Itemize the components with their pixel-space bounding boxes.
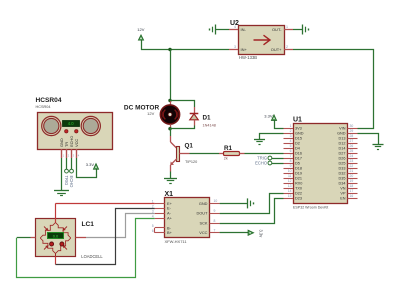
svg-text:HCSR04: HCSR04 (36, 105, 51, 109)
svg-text:D14: D14 (339, 146, 346, 150)
svg-text:D13: D13 (339, 136, 346, 140)
svg-text:SCK: SCK (200, 220, 208, 225)
svg-text:5: 5 (290, 144, 292, 148)
svg-text:ECHO: ECHO (69, 176, 74, 188)
svg-text:LC1: LC1 (82, 221, 95, 228)
svg-text:ESP32 Wroom DevKit: ESP32 Wroom DevKit (293, 206, 328, 210)
svg-text:D21: D21 (295, 176, 302, 180)
svg-text:OUT+: OUT+ (271, 47, 282, 52)
svg-text:8: 8 (290, 159, 292, 163)
svg-text:D35: D35 (339, 176, 346, 180)
svg-text:6: 6 (152, 229, 154, 233)
svg-text:4: 4 (290, 139, 292, 143)
svg-text:3: 3 (152, 209, 154, 213)
svg-text:VIN: VIN (339, 126, 346, 130)
svg-text:Q1: Q1 (185, 143, 194, 150)
svg-text:0.0: 0.0 (53, 234, 59, 239)
svg-text:3.3V: 3.3V (264, 114, 273, 119)
svg-text:TIP120: TIP120 (185, 160, 197, 164)
svg-text:26: 26 (350, 144, 354, 148)
svg-text:ECHO: ECHO (255, 160, 267, 165)
svg-text:VN: VN (340, 186, 346, 190)
svg-text:IN-: IN- (241, 27, 247, 32)
svg-text:VCC: VCC (74, 139, 79, 147)
svg-text:19: 19 (350, 179, 354, 183)
svg-text:9: 9 (290, 164, 292, 168)
svg-text:23: 23 (350, 159, 354, 163)
svg-text:D5: D5 (295, 161, 300, 165)
svg-text:GND: GND (295, 131, 304, 135)
svg-text:27: 27 (350, 139, 354, 143)
svg-text:D15: D15 (295, 136, 302, 140)
svg-text:29: 29 (350, 129, 354, 133)
svg-text:11: 11 (288, 174, 292, 178)
svg-text:TX0: TX0 (295, 186, 302, 190)
svg-text:16: 16 (350, 194, 354, 198)
svg-text:3: 3 (73, 153, 75, 157)
svg-text:EN: EN (340, 196, 346, 200)
svg-text:13: 13 (288, 184, 292, 188)
svg-text:IN+: IN+ (241, 47, 248, 52)
svg-text:VP: VP (340, 191, 346, 195)
svg-text:LOADCELL: LOADCELL (81, 254, 103, 259)
svg-text:1N4148: 1N4148 (203, 124, 216, 128)
svg-text:GND: GND (337, 131, 346, 135)
svg-text:GND: GND (199, 201, 208, 206)
svg-text:D4: D4 (295, 146, 300, 150)
svg-text:XFW-HX711: XFW-HX711 (165, 239, 188, 244)
svg-text:D27: D27 (339, 151, 346, 155)
svg-text:VCC: VCC (199, 230, 207, 235)
svg-text:9: 9 (214, 209, 216, 213)
svg-text:D17: D17 (295, 156, 302, 160)
svg-text:D1: D1 (203, 115, 212, 122)
svg-text:D12: D12 (339, 141, 346, 145)
svg-text:D25: D25 (339, 161, 346, 165)
svg-text:7: 7 (214, 229, 216, 233)
svg-text:D33: D33 (339, 166, 346, 170)
svg-text:3: 3 (290, 134, 292, 138)
svg-text:D32: D32 (339, 171, 346, 175)
svg-text:R1: R1 (224, 145, 233, 152)
svg-text:B+: B+ (167, 230, 173, 235)
svg-text:1: 1 (286, 25, 288, 29)
svg-text:3V3: 3V3 (295, 126, 302, 130)
svg-text:2k: 2k (224, 157, 228, 161)
svg-text:OUT-: OUT- (272, 27, 282, 32)
svg-text:12V: 12V (137, 27, 144, 32)
svg-text:8: 8 (214, 219, 216, 223)
svg-text:10: 10 (214, 199, 218, 203)
svg-text:3.3v: 3.3v (259, 230, 264, 239)
svg-text:DOUT: DOUT (196, 211, 208, 216)
svg-text:1: 1 (290, 124, 292, 128)
svg-text:12: 12 (288, 179, 292, 183)
svg-text:4: 4 (152, 214, 154, 218)
svg-text:17: 17 (350, 189, 354, 193)
svg-text:5: 5 (152, 224, 154, 228)
svg-text:18: 18 (350, 184, 354, 188)
svg-text:12V: 12V (147, 111, 154, 116)
svg-text:20: 20 (350, 174, 354, 178)
svg-text:2: 2 (290, 129, 292, 133)
svg-text:7: 7 (290, 154, 292, 158)
svg-text:30: 30 (350, 124, 354, 128)
svg-text:D26: D26 (339, 156, 346, 160)
svg-text:D18: D18 (295, 166, 302, 170)
svg-text:21: 21 (350, 169, 354, 173)
svg-text:3.3V: 3.3V (86, 162, 95, 167)
svg-text:1: 1 (63, 153, 65, 157)
svg-text:HW-133B: HW-133B (239, 55, 257, 60)
svg-text:4: 4 (234, 25, 236, 29)
svg-text:TRIG: TRIG (64, 176, 69, 186)
svg-text:A+: A+ (167, 216, 173, 221)
svg-text:4.0: 4.0 (68, 121, 74, 126)
svg-text:10: 10 (288, 169, 292, 173)
svg-text:RX0: RX0 (295, 181, 302, 185)
svg-text:D19: D19 (295, 171, 302, 175)
svg-text:D23: D23 (295, 196, 302, 200)
svg-text:U1: U1 (293, 117, 302, 124)
svg-text:28: 28 (350, 134, 354, 138)
svg-text:D2: D2 (295, 141, 300, 145)
svg-text:15: 15 (288, 194, 292, 198)
svg-text:2: 2 (286, 45, 288, 49)
svg-text:HCSR04: HCSR04 (36, 97, 62, 104)
svg-text:25: 25 (350, 149, 354, 153)
svg-text:2: 2 (68, 153, 70, 157)
svg-text:24: 24 (350, 154, 354, 158)
svg-text:D16: D16 (295, 151, 302, 155)
svg-text:14: 14 (288, 189, 292, 193)
svg-text:4: 4 (78, 153, 80, 157)
svg-text:6: 6 (290, 149, 292, 153)
svg-text:D34: D34 (339, 181, 346, 185)
svg-text:22: 22 (350, 164, 354, 168)
svg-text:3: 3 (234, 45, 236, 49)
svg-text:D22: D22 (295, 191, 302, 195)
